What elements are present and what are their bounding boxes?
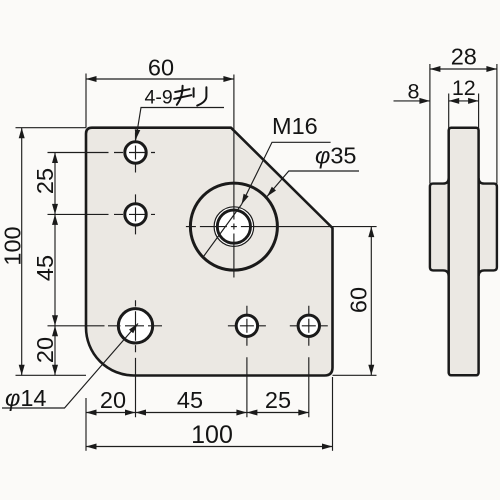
hole H5 crosshair: [290, 306, 328, 418]
svg-text:20: 20: [100, 387, 126, 413]
hole H5 (ø9, bottom right): [298, 315, 319, 336]
svg-text:60: 60: [148, 55, 174, 81]
svg-text:φ35: φ35: [315, 143, 356, 169]
leader phi14: [2, 324, 138, 409]
side view boss right flange: [479, 178, 497, 276]
dimension 20 (left): [52, 326, 58, 337]
leader M16 continuation through hole: [204, 205, 242, 257]
extension line: plate right face up: [478, 94, 480, 129]
extension line: top edge extended left: [16, 127, 87, 129]
hole ø35 counterbore circle: [190, 183, 277, 270]
leader M16: [242, 142, 331, 204]
hole H4 crosshair: [228, 306, 266, 418]
svg-text:8: 8: [408, 80, 420, 104]
extension line: left edge extended up (for top 60 dim): [85, 74, 87, 128]
dimension 12 (side view): [449, 100, 479, 102]
dimension 25 (bottom): [247, 410, 258, 416]
svg-text:4-9: 4-9: [145, 86, 173, 108]
svg-text:20: 20: [32, 337, 58, 363]
hole H4 (ø9, bottom middle): [236, 315, 257, 336]
svg-text:M16: M16: [272, 113, 318, 139]
hole H2 (ø9, left column second): [125, 204, 146, 225]
hole H3 (ø14, bottom-left): [118, 309, 152, 343]
plate outline (front view): [86, 128, 333, 376]
extension line: bottom edge extended right: [333, 374, 377, 376]
dimension 100 (bottom): [86, 446, 333, 448]
dimension 20 (bottom): [86, 412, 309, 414]
leader 4-9 kiri arrowhead: [135, 129, 141, 139]
svg-text:φ14: φ14: [5, 385, 46, 411]
katakana RI: [194, 87, 207, 105]
extension line: boss left face up: [429, 64, 431, 184]
center hole centerlines (M16/ø35): [186, 75, 377, 278]
leader phi35: [267, 171, 359, 197]
dimension 45 (left): [52, 214, 58, 225]
svg-text:25: 25: [32, 168, 58, 194]
hole H1 (ø9, top-left): [125, 142, 146, 163]
svg-text:12: 12: [452, 76, 476, 100]
extension line: bottom edge extended left: [16, 374, 87, 376]
hole H2 crosshair: [48, 194, 156, 234]
dimension 25 (left): [54, 153, 56, 376]
extension line: right edge extended down (for bottom 100 dim): [332, 377, 334, 451]
svg-text:28: 28: [451, 44, 477, 70]
svg-text:25: 25: [265, 387, 291, 413]
extension line: boss right face up: [496, 64, 498, 184]
dimension 60 (top): [86, 78, 234, 80]
katakana KI: [174, 86, 191, 105]
svg-text:100: 100: [191, 421, 233, 449]
leader 4-9 kiri underline: [136, 108, 224, 140]
dimension 60 (right): [370, 227, 372, 376]
hole H3 crosshair: [48, 300, 163, 417]
hole H1 crosshair: [48, 133, 156, 173]
M16 thread circle (thin): [214, 207, 254, 247]
side view plate body: [449, 128, 479, 376]
dimension 8 (side view): [394, 100, 430, 102]
svg-text:45: 45: [32, 255, 58, 281]
dimension 45 (bottom): [136, 410, 147, 416]
svg-text:45: 45: [177, 387, 203, 413]
svg-text:60: 60: [346, 287, 372, 313]
M16 tap hole circle: [217, 210, 250, 243]
extension line: plate left face up: [448, 94, 450, 129]
side view boss left flange: [430, 178, 449, 276]
svg-text:100: 100: [0, 226, 26, 265]
dimension 100 (left): [21, 128, 23, 376]
extension line: left edge extended down (for bottom dims): [85, 398, 87, 451]
dimension 28 (side view): [430, 68, 497, 70]
